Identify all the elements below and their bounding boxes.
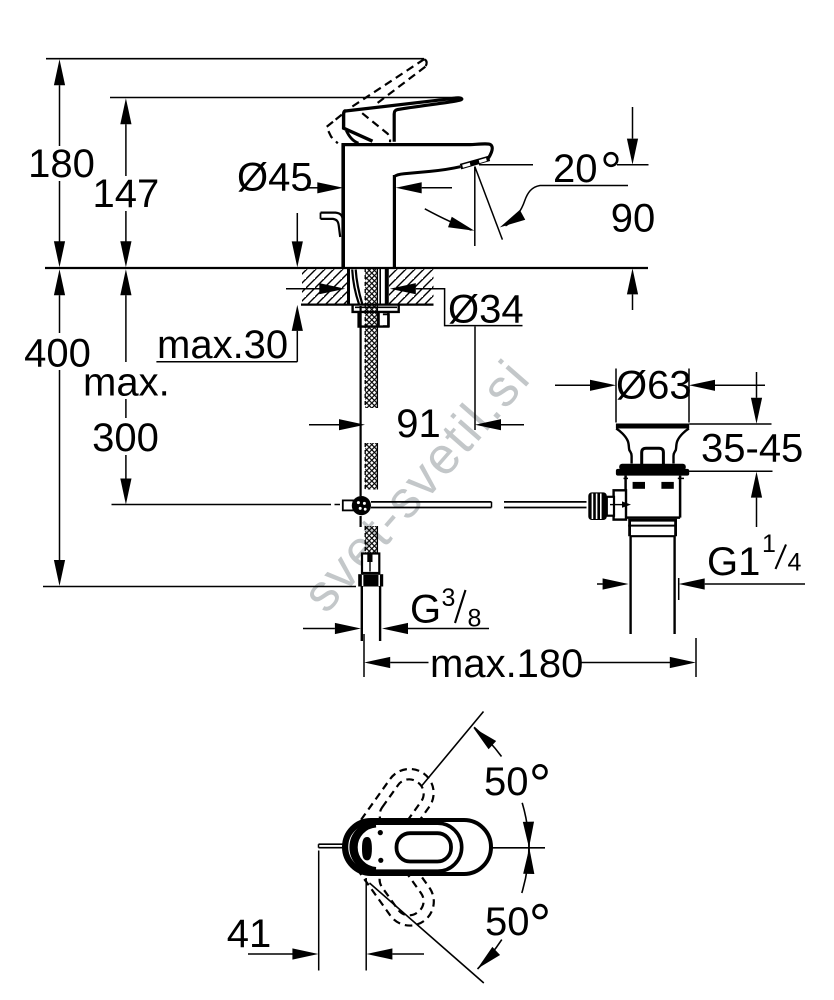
svg-text:Ø45: Ø45 [237, 156, 313, 200]
svg-text:91: 91 [396, 402, 441, 446]
svg-text:max.180: max.180 [430, 642, 583, 686]
svg-text:180: 180 [28, 142, 95, 186]
svg-text:Ø63: Ø63 [616, 364, 692, 408]
svg-text:1: 1 [762, 530, 776, 558]
svg-text:Ø34: Ø34 [448, 288, 524, 332]
svg-text:35-45: 35-45 [701, 427, 803, 471]
svg-text:G: G [410, 588, 441, 632]
svg-text:G1: G1 [707, 540, 760, 584]
svg-text:max.: max. [83, 361, 170, 405]
svg-text:50: 50 [485, 900, 530, 944]
svg-text:41: 41 [227, 912, 272, 956]
svg-text:90: 90 [611, 197, 656, 241]
svg-text:max.30: max.30 [157, 323, 288, 367]
svg-text:20: 20 [553, 147, 598, 191]
svg-text:400: 400 [24, 332, 91, 376]
svg-text:147: 147 [93, 172, 160, 216]
svg-text:4: 4 [788, 549, 802, 577]
svg-text:50: 50 [484, 760, 529, 804]
svg-text:300: 300 [92, 416, 159, 460]
svg-text:3: 3 [442, 584, 456, 612]
